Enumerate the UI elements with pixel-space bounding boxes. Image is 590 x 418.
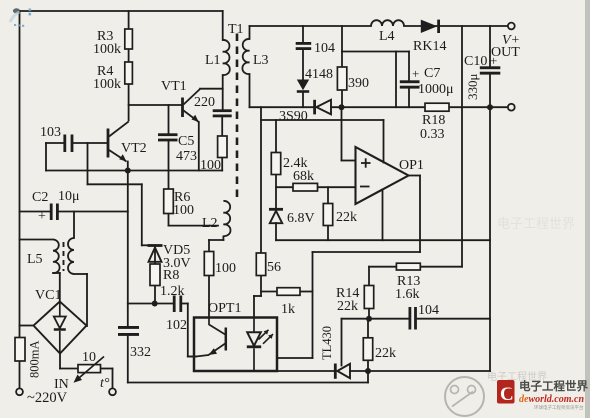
svg-text:电子工程世界: 电子工程世界 (497, 216, 575, 231)
svg-text:4148: 4148 (305, 67, 333, 82)
svg-text:103: 103 (40, 125, 61, 140)
svg-text:390: 390 (348, 76, 369, 91)
svg-text:L5: L5 (27, 252, 43, 267)
svg-text:VT1: VT1 (161, 79, 187, 94)
svg-text:OUT: OUT (491, 45, 520, 60)
svg-text:1.2k: 1.2k (160, 284, 185, 299)
svg-text:L3: L3 (253, 53, 269, 68)
svg-text:100k: 100k (93, 77, 121, 92)
svg-text:C7: C7 (424, 66, 440, 81)
svg-text:22k: 22k (337, 299, 358, 314)
svg-text:C2: C2 (32, 190, 48, 205)
svg-text:6.8V: 6.8V (287, 211, 315, 226)
svg-text:100: 100 (215, 261, 236, 276)
svg-text:100k: 100k (93, 42, 121, 57)
svg-text:68k: 68k (293, 169, 314, 184)
svg-text:VT2: VT2 (121, 141, 147, 156)
svg-text:332: 332 (130, 345, 151, 360)
svg-text:L2: L2 (202, 216, 218, 231)
svg-text:22k: 22k (336, 210, 357, 225)
svg-text:100: 100 (200, 158, 221, 173)
svg-text:3S90: 3S90 (279, 109, 308, 124)
svg-text:10μ: 10μ (58, 189, 80, 204)
svg-text:OP1: OP1 (399, 158, 424, 173)
svg-text:环球电子工程师资讯平台: 环球电子工程师资讯平台 (534, 404, 584, 411)
svg-text:R8: R8 (163, 268, 179, 283)
svg-text:L4: L4 (379, 29, 395, 44)
svg-text:R18: R18 (422, 113, 445, 128)
svg-text:+: + (412, 66, 419, 81)
svg-text:220: 220 (194, 95, 215, 110)
svg-text:C5: C5 (178, 134, 194, 149)
svg-text:deworld.com.cn: deworld.com.cn (519, 394, 584, 405)
svg-text:C10: C10 (464, 54, 487, 69)
svg-text:TL430: TL430 (320, 326, 334, 360)
svg-text:RK14: RK14 (413, 39, 446, 54)
svg-text:t°: t° (100, 376, 110, 391)
svg-text:100: 100 (173, 203, 194, 218)
svg-text:L1: L1 (205, 53, 221, 68)
svg-text:T1: T1 (228, 22, 244, 37)
svg-text:56: 56 (267, 260, 281, 275)
svg-text:电子工程世界: 电子工程世界 (519, 379, 588, 393)
svg-text:VC1: VC1 (35, 288, 61, 303)
svg-text:1.6k: 1.6k (395, 287, 420, 302)
svg-text:+: + (38, 209, 46, 224)
svg-text:104: 104 (418, 303, 439, 318)
svg-text:22k: 22k (375, 346, 396, 361)
svg-text:~220V: ~220V (27, 390, 68, 406)
svg-text:OPT1: OPT1 (208, 301, 241, 316)
svg-text:1000μ: 1000μ (418, 82, 454, 97)
svg-text:0.33: 0.33 (420, 127, 445, 142)
svg-text:800mA: 800mA (28, 341, 42, 379)
svg-text:102: 102 (166, 318, 187, 333)
svg-text:104: 104 (314, 41, 335, 56)
svg-text:10: 10 (82, 350, 96, 365)
svg-text:1k: 1k (281, 302, 295, 317)
svg-text:473: 473 (176, 149, 197, 164)
svg-text:330μ: 330μ (465, 74, 480, 101)
